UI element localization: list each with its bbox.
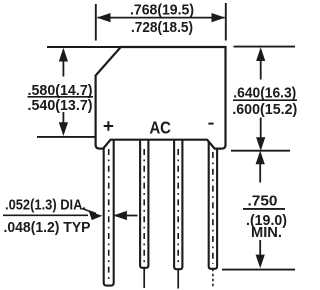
lead 1 (pin +) outline — [104, 138, 114, 286]
lead 3 wire tip — [177, 269, 179, 288]
left dimension fraction bar — [28, 96, 94, 98]
svg-text:.540(13.7): .540(13.7) — [28, 97, 93, 114]
lead 2 wire tip — [143, 268, 145, 288]
right shared extension line (bottom of .640 dim / top of .750 dim) — [231, 150, 290, 152]
body top edge extension line (left, for height dim) — [47, 46, 122, 48]
svg-text:AC: AC — [149, 117, 171, 137]
svg-text:.750: .750 — [248, 193, 278, 210]
svg-text:.052(1.3) DIA.: .052(1.3) DIA. — [5, 197, 86, 214]
svg-text:.640(16.3): .640(16.3) — [233, 85, 296, 102]
svg-text:.048(1.2) TYP: .048(1.2) TYP — [4, 219, 91, 236]
right upper dimension top extension line — [234, 46, 296, 48]
lead 2 center line — [143, 149, 145, 264]
top dimension right arrowhead — [212, 13, 226, 22]
top dimension extension line right — [225, 3, 227, 41]
top dimension extension line left — [95, 4, 97, 41]
left dimension down arrow — [62, 112, 64, 130]
left dimension up arrow — [62, 54, 64, 77]
right upper dimension fraction bar — [233, 99, 297, 101]
lead diameter fraction bar — [3, 214, 88, 216]
right upper dimension up arrow — [260, 53, 262, 80]
lead 3 center line — [177, 149, 179, 265]
svg-text:MIN.: MIN. — [251, 224, 282, 241]
top dimension line — [98, 17, 225, 19]
lead 1 center line — [108, 149, 110, 281]
lead 4 center line — [212, 152, 214, 264]
right lower dimension up arrow — [259, 156, 261, 183]
right upper dimension down arrow — [260, 118, 262, 146]
lead 4 wire tip (dotted) — [212, 269, 214, 288]
right lower dimension fraction bar — [243, 208, 285, 210]
body marking - (minus terminal) — [208, 123, 213, 125]
device body outline (chamfered top-left corner) — [96, 47, 226, 149]
svg-text:.768(19.5): .768(19.5) — [130, 2, 194, 19]
lead diameter leader arrow (points right at lead 1 left edge) — [82, 209, 96, 214]
lead 4 (pin -) outline — [209, 138, 217, 269]
right lower dimension down arrow — [259, 240, 261, 262]
lead 3 (pin AC) outline — [174, 138, 182, 269]
lead diameter opposing arrow (points left at lead 1 right edge) — [114, 215, 138, 217]
lead 2 (pin AC) outline — [140, 138, 148, 268]
bottom extension line (lead length datum) — [222, 269, 295, 271]
svg-text:.600(15.2): .600(15.2) — [232, 101, 297, 118]
body marking + (plus terminal) — [104, 121, 114, 131]
left dimension bottom extension line — [37, 136, 95, 138]
svg-text:.728(18.5): .728(18.5) — [131, 19, 193, 36]
top dimension left arrowhead — [97, 13, 111, 22]
